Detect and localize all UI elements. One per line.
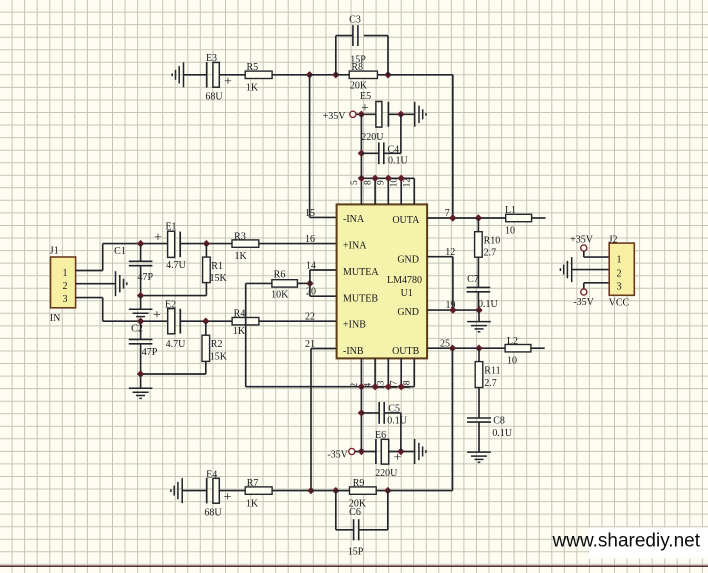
svg-text:16: 16	[305, 234, 315, 245]
node pin21 feedback junction	[307, 487, 314, 494]
ground J2 pin2	[560, 257, 571, 282]
svg-text:R3: R3	[234, 231, 246, 242]
resistor R8	[349, 62, 377, 91]
svg-text:C4: C4	[388, 145, 400, 156]
svg-text:R6: R6	[274, 270, 286, 281]
svg-text:10: 10	[507, 356, 517, 367]
resistor R6	[271, 270, 297, 301]
svg-text:68U: 68U	[204, 508, 222, 519]
svg-text:15P: 15P	[350, 55, 366, 66]
node -35V junction	[358, 448, 365, 455]
pin 8 top stub	[364, 178, 376, 204]
resistor R4	[232, 309, 259, 337]
svg-text:13: 13	[377, 380, 387, 390]
ground zobel A	[467, 310, 491, 332]
pin 2 bottom stub	[350, 358, 362, 387]
svg-text:C2: C2	[131, 323, 143, 334]
wire E2 to node	[180, 320, 232, 322]
svg-text:+: +	[224, 490, 232, 505]
pin 17 bottom stub	[390, 358, 402, 390]
port +35V top	[323, 111, 356, 122]
svg-text:OUTA: OUTA	[392, 215, 420, 226]
svg-text:R11: R11	[484, 366, 500, 377]
pin 5 top stub	[350, 178, 362, 204]
svg-text:2: 2	[617, 268, 622, 279]
node C2 top junction	[137, 318, 144, 325]
svg-text:C1: C1	[114, 246, 126, 257]
wire -35V riser	[360, 387, 362, 452]
svg-text:4.7U: 4.7U	[166, 260, 187, 271]
svg-text:J2: J2	[609, 234, 618, 245]
svg-text:+INA: +INA	[343, 241, 367, 252]
svg-text:0.1U: 0.1U	[388, 156, 409, 167]
ground V- rail	[415, 439, 426, 464]
wire R6 right	[297, 282, 310, 284]
capacitor E2	[153, 300, 186, 350]
wire +35V to J2 pin1	[584, 251, 609, 257]
svg-text:C7: C7	[467, 274, 479, 285]
wire R8 node to OUTA feedback corner	[388, 74, 453, 76]
svg-text:47P: 47P	[142, 347, 158, 358]
svg-text:-INA: -INA	[343, 214, 365, 225]
svg-text:47P: 47P	[138, 272, 154, 283]
svg-text:+: +	[154, 230, 162, 245]
svg-text:17: 17	[390, 380, 400, 390]
wire E1 to R3	[180, 243, 232, 245]
svg-text:21: 21	[305, 339, 315, 350]
node R1 top junction	[203, 240, 210, 247]
svg-text:15: 15	[305, 208, 315, 219]
svg-text:+: +	[224, 74, 232, 89]
svg-text:E2: E2	[165, 300, 176, 311]
wire pin21 to U1	[305, 339, 337, 350]
svg-text:MUTEB: MUTEB	[343, 293, 378, 304]
wire R9 to C6 right leg	[376, 490, 388, 492]
wire R2 bottom to C2 bottom	[141, 373, 206, 375]
svg-text:L1: L1	[505, 205, 516, 216]
connector J2	[609, 234, 635, 308]
svg-text:1K: 1K	[246, 83, 259, 94]
svg-text:12: 12	[445, 247, 455, 258]
svg-text:C3: C3	[349, 15, 361, 26]
resistor R2	[202, 321, 228, 374]
resistor R3	[232, 231, 259, 261]
wire R8 to C3 right leg	[377, 74, 388, 76]
wire +35V to E5	[356, 113, 376, 115]
wire R7 to pin21 node	[272, 490, 311, 492]
svg-text:IN: IN	[50, 313, 61, 324]
wire to R9	[336, 490, 350, 492]
svg-text:1: 1	[63, 268, 68, 279]
svg-text:20K: 20K	[350, 80, 368, 91]
svg-text:+INB: +INB	[343, 319, 366, 330]
svg-text:10: 10	[505, 225, 515, 236]
node C3 right junction	[384, 71, 391, 78]
pin 10 top stub	[390, 178, 402, 205]
op-amp U1 LM4780	[337, 204, 428, 358]
node C6 right junction	[384, 487, 391, 494]
node R2 top junction	[202, 318, 209, 325]
svg-text:-35V: -35V	[327, 449, 348, 460]
wire pin12 to U1	[427, 247, 455, 258]
svg-text:MUTEA: MUTEA	[343, 267, 379, 278]
svg-text:www.sharediy.net: www.sharediy.net	[552, 530, 701, 551]
wire E4 to R7	[219, 490, 245, 492]
wire pin15 vertical	[309, 75, 311, 218]
pin 12 top stub	[403, 178, 415, 205]
svg-text:C8: C8	[493, 416, 505, 427]
svg-text:U1: U1	[401, 288, 413, 299]
svg-text:GND: GND	[397, 307, 419, 318]
wire to R8	[336, 74, 349, 76]
svg-text:E4: E4	[206, 469, 217, 480]
svg-text:25: 25	[440, 338, 450, 349]
svg-text:+: +	[153, 308, 161, 323]
svg-text:R1: R1	[211, 261, 223, 272]
watermark panel	[552, 528, 708, 559]
wire E5 to ground	[388, 113, 414, 115]
svg-text:+35V: +35V	[570, 235, 594, 246]
capacitor C2	[129, 321, 158, 374]
capacitor E3	[205, 53, 232, 103]
svg-text:2.7: 2.7	[484, 248, 497, 259]
svg-text:5: 5	[350, 180, 360, 185]
wire E3 to R5	[219, 74, 245, 76]
svg-text:1K: 1K	[234, 251, 247, 262]
wire V- row	[246, 386, 415, 388]
svg-text:10K: 10K	[271, 289, 289, 300]
node mute junction	[306, 280, 313, 287]
wire J1 pin1 riser	[102, 244, 104, 271]
ground input B	[129, 374, 153, 398]
svg-text:L2: L2	[507, 336, 518, 347]
resistor R5	[245, 62, 272, 93]
wire OUTA	[427, 208, 506, 219]
wire E3 ground to E3	[184, 74, 207, 76]
svg-text:8: 8	[364, 180, 374, 185]
svg-text:+: +	[361, 101, 369, 116]
svg-text:15K: 15K	[210, 273, 228, 284]
capacitor C1	[114, 244, 153, 296]
svg-text:R4: R4	[234, 309, 246, 320]
port -35V bottom	[327, 448, 355, 460]
wire J2 pin3	[584, 283, 609, 289]
wire OUTB	[427, 338, 505, 349]
port +35V right	[570, 235, 594, 251]
capacitor E6	[375, 430, 402, 479]
inductor L2	[505, 336, 531, 367]
svg-text:R2: R2	[211, 339, 223, 350]
capacitor C5	[361, 402, 407, 452]
wire V+ pin row	[361, 177, 414, 179]
ground V+ rail	[415, 102, 426, 127]
pin 13 bottom stub	[377, 358, 389, 390]
wire L1 out	[532, 217, 546, 219]
svg-text:R5: R5	[246, 62, 258, 73]
node V+ row junction	[398, 175, 405, 182]
svg-text:18: 18	[403, 380, 413, 390]
svg-text:22: 22	[305, 312, 315, 323]
svg-text:12: 12	[403, 178, 413, 188]
svg-text:4.7U: 4.7U	[166, 339, 187, 350]
inductor L1	[505, 205, 532, 236]
node R5/R8/pin15 junction	[306, 71, 313, 78]
node C6 left junction	[332, 487, 339, 494]
capacitor E4	[204, 469, 231, 518]
svg-text:J1: J1	[50, 245, 59, 256]
pin 18 bottom stub	[403, 358, 415, 390]
node C2 bottom junction	[137, 370, 144, 377]
resistor R11	[475, 348, 500, 389]
node C7 bottom junction	[475, 306, 482, 313]
capacitor C6	[336, 491, 388, 558]
ground J1 pin2	[116, 271, 127, 296]
node C5 left junction	[358, 409, 365, 416]
svg-text:15K: 15K	[210, 352, 228, 363]
node V- row junction	[398, 383, 405, 390]
pin 4 bottom stub	[364, 358, 376, 387]
ground input A	[129, 296, 153, 320]
wire J1 pin2	[76, 283, 116, 285]
resistor R1	[203, 244, 228, 296]
capacitor E5	[360, 91, 388, 143]
svg-text:E6: E6	[375, 430, 386, 441]
ground GND-A (left of E3)	[172, 62, 183, 87]
node V- row junction	[385, 383, 392, 390]
svg-text:E5: E5	[360, 91, 371, 102]
svg-text:LM4780: LM4780	[387, 275, 422, 286]
svg-text:7: 7	[445, 208, 450, 219]
wire R6 left	[246, 282, 272, 284]
svg-text:1K: 1K	[246, 498, 259, 509]
svg-text:R10: R10	[484, 235, 501, 246]
svg-text:0.1U: 0.1U	[492, 428, 513, 439]
wire J1 pin3 dropper	[102, 298, 104, 322]
wire pin20 to U1	[306, 287, 337, 298]
capacitor C8	[467, 388, 513, 453]
port -35V right	[573, 289, 594, 308]
svg-text:E3: E3	[206, 53, 217, 64]
wire +35V dropper	[360, 114, 362, 178]
wire L2 out	[531, 347, 545, 349]
wire to OUTB feedback	[388, 490, 453, 492]
node R10 top junction	[475, 214, 482, 221]
node E6 ground junction	[397, 448, 404, 455]
wire OUTB feedback dropper	[452, 348, 454, 490]
node C3 left junction	[332, 71, 339, 78]
capacitor C4	[361, 114, 408, 166]
node +35V junction	[358, 111, 365, 118]
svg-text:1K: 1K	[233, 326, 246, 337]
wire pin15 to U1	[305, 208, 337, 219]
svg-text:1: 1	[617, 254, 622, 265]
wire J1 pin3	[76, 297, 103, 299]
ground zobel B	[467, 452, 491, 462]
svg-text:220U: 220U	[361, 132, 384, 143]
capacitor C3	[336, 15, 388, 75]
wire feedback vertical to OUTA	[452, 75, 454, 218]
node pin19 junction	[449, 306, 456, 313]
svg-text:-35V: -35V	[573, 297, 594, 308]
wire E4 ground to E4	[182, 490, 207, 492]
svg-text:OUTB: OUTB	[392, 346, 420, 357]
sheet border bottom	[0, 565, 708, 567]
wire R5 to node	[272, 74, 310, 76]
svg-text:2.7: 2.7	[484, 378, 497, 389]
wire input B line	[103, 320, 168, 322]
capacitor C7	[467, 257, 499, 310]
svg-text:R9: R9	[353, 478, 365, 489]
node C1 top junction	[137, 240, 144, 247]
svg-text:GND: GND	[397, 255, 419, 266]
wire R4 to U1 pin22	[259, 312, 337, 323]
node R11 top junction	[475, 345, 482, 352]
svg-text:2: 2	[63, 281, 68, 292]
wire node to C3 leg	[310, 74, 336, 76]
wire input A line	[103, 243, 168, 245]
svg-text:9: 9	[377, 180, 387, 185]
svg-text:+35V: +35V	[323, 111, 347, 122]
node C4 left junction	[358, 150, 365, 157]
pin 9 top stub	[377, 178, 389, 204]
wire R3 to U1 pin16	[259, 234, 337, 245]
svg-text:20: 20	[306, 287, 316, 298]
node C1 bottom junction	[137, 292, 144, 299]
node V- row junction	[358, 383, 365, 390]
svg-text:68U: 68U	[205, 91, 223, 102]
svg-text:3: 3	[63, 294, 68, 305]
svg-text:R7: R7	[247, 478, 259, 489]
wire pin12 to pin19	[452, 257, 454, 310]
connector J1	[50, 245, 76, 323]
resistor R9	[349, 478, 376, 510]
wire mute to V- row	[245, 283, 247, 386]
wire pin14 to U1	[306, 260, 337, 271]
node OUTA feedback junction	[449, 214, 456, 221]
svg-text:220U: 220U	[375, 468, 398, 479]
wire E6 to ground	[389, 451, 415, 453]
resistor R7	[245, 478, 272, 509]
capacitor E1	[154, 222, 187, 272]
svg-text:3: 3	[617, 281, 622, 292]
wire -35V to E6	[355, 451, 376, 453]
svg-text:-INB: -INB	[343, 346, 364, 357]
wire J1 pin1	[76, 270, 103, 272]
svg-text:VCC: VCC	[609, 298, 630, 309]
wire R1 bottom to C1 bottom	[141, 295, 207, 297]
node OUTB feedback junction	[449, 345, 456, 352]
svg-text:14: 14	[306, 260, 316, 271]
node V+ row junction	[358, 175, 365, 182]
svg-text:0.1U: 0.1U	[387, 415, 408, 426]
wire to C6 left leg	[311, 490, 336, 492]
resistor R10	[475, 218, 501, 259]
svg-text:E1: E1	[165, 222, 176, 233]
wire pin21 dropper	[310, 349, 312, 491]
wire J2 pin2	[572, 269, 610, 271]
svg-text:15P: 15P	[348, 546, 364, 557]
svg-text:C6: C6	[349, 507, 361, 518]
node E5 ground junction	[397, 111, 404, 118]
node V+ row junction	[371, 175, 378, 182]
svg-text:C5: C5	[388, 404, 400, 415]
wire pin19 to U1	[427, 300, 479, 311]
node V- row junction	[371, 383, 378, 390]
node V+ row junction	[385, 175, 392, 182]
wire pin14 link	[309, 270, 311, 296]
ground GND-B (left of E4)	[171, 478, 182, 503]
